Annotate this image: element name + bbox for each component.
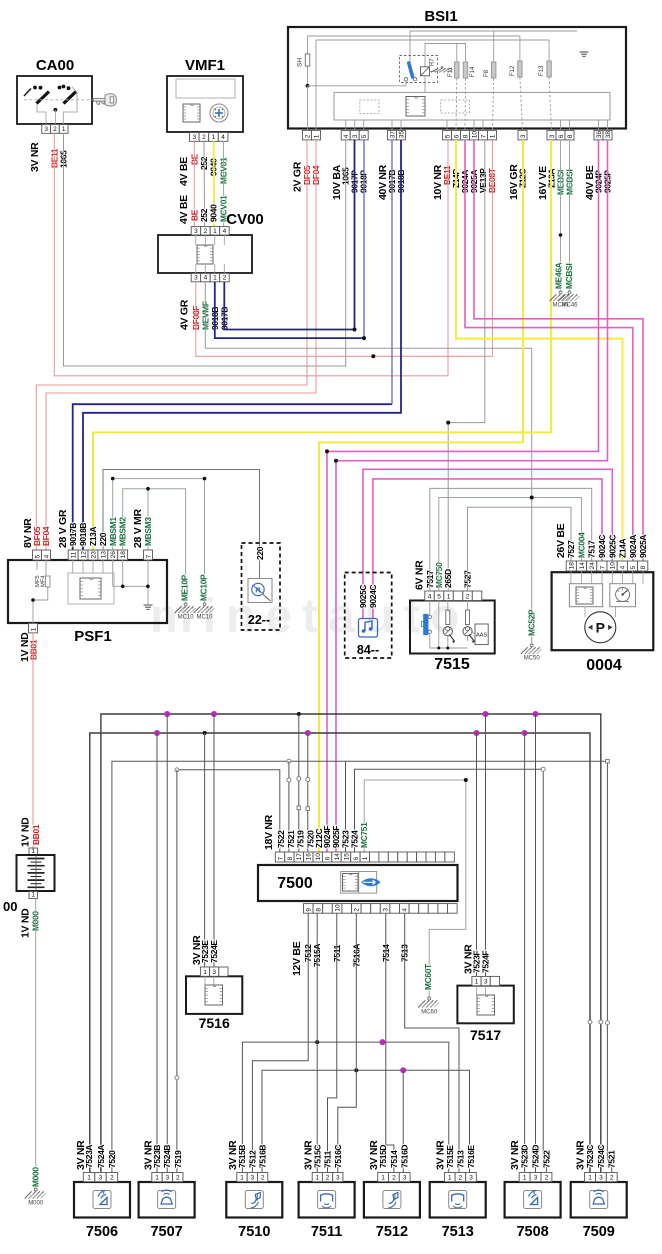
- svg-text:1: 1: [381, 1175, 385, 1182]
- svg-text:7: 7: [145, 554, 152, 558]
- key icon: [94, 94, 117, 106]
- svg-text:2: 2: [304, 134, 311, 138]
- svg-text:3: 3: [520, 134, 527, 138]
- wire 7511 stair: [328, 913, 337, 1172]
- svg-text:7514: 7514: [389, 1150, 399, 1168]
- fuse F13: [547, 61, 551, 77]
- svg-text:F14: F14: [470, 66, 476, 77]
- svg-text:9: 9: [306, 908, 313, 912]
- svg-text:7523C: 7523C: [585, 1145, 595, 1168]
- sensor unit 7510 box: [226, 1182, 282, 1218]
- wire BE: [193, 141, 195, 227]
- svg-text:MC10: MC10: [196, 615, 213, 621]
- svg-text:1: 1: [313, 134, 320, 138]
- svg-text:PSF1: PSF1: [74, 628, 112, 645]
- 22-- radio icon: [248, 579, 272, 603]
- svg-text:4: 4: [428, 593, 432, 600]
- wire 7519 to 7507: [176, 770, 178, 1172]
- wire MCV01: [222, 141, 224, 227]
- svg-text:3: 3: [534, 1175, 538, 1182]
- svg-text:14: 14: [579, 562, 586, 570]
- wire 1065 CA00-BSI1: [64, 133, 346, 366]
- VMF1 pin strip 3-2-1-4: [190, 133, 200, 142]
- relay R7 contacts: [404, 78, 407, 81]
- svg-text:ME10P: ME10P: [180, 574, 190, 601]
- BSI1 small ground near coil: [430, 70, 438, 72]
- svg-text:8: 8: [315, 908, 322, 912]
- wire MEVMF to MC52P ground: [205, 282, 531, 644]
- svg-text:1: 1: [588, 1175, 592, 1182]
- svg-text:14: 14: [334, 853, 341, 861]
- svg-text:F11: F11: [448, 66, 454, 77]
- svg-text:MC10P: MC10P: [199, 574, 209, 601]
- 7515 ground rail: [430, 647, 468, 649]
- svg-text:4: 4: [343, 134, 350, 138]
- 7515 lamp 1: [447, 601, 449, 611]
- svg-text:MC60: MC60: [421, 1010, 438, 1016]
- svg-text:F13: F13: [539, 65, 545, 76]
- dashed unit 22--: [242, 543, 281, 630]
- svg-text:3: 3: [44, 126, 48, 133]
- svg-text:7516E: 7516E: [466, 1145, 476, 1168]
- svg-text:3: 3: [212, 969, 216, 976]
- wire 9024A: [465, 140, 633, 561]
- svg-text:2: 2: [545, 1175, 549, 1182]
- CA00 pin strip 3-2-1: [42, 125, 51, 134]
- svg-text:2: 2: [610, 1175, 614, 1182]
- svg-text:7520: 7520: [107, 1150, 117, 1168]
- svg-text:7: 7: [599, 565, 606, 569]
- svg-text:3: 3: [99, 1175, 103, 1182]
- wire MBSM2 to ME10P: [123, 489, 186, 603]
- BSI1 pins 10V BA: [341, 130, 350, 140]
- wire 7523F: [476, 733, 478, 976]
- svg-text:7522: 7522: [276, 830, 286, 848]
- svg-text:265D: 265D: [443, 569, 453, 588]
- svg-text:7523D: 7523D: [520, 1145, 530, 1168]
- 0004 P telltale: [585, 612, 616, 643]
- instrument panel 0004 box: [552, 572, 654, 650]
- 7516 pin strip: [200, 967, 209, 976]
- svg-text:3: 3: [352, 134, 359, 138]
- svg-text:9025C: 9025C: [607, 535, 617, 558]
- svg-text:2: 2: [392, 1175, 396, 1182]
- 7513 pin strip: [445, 1173, 456, 1182]
- svg-text:220: 220: [98, 532, 108, 546]
- PSF1 pins 28V GR: [68, 550, 78, 560]
- BSI1 pins 40V NR: [388, 130, 397, 140]
- connector CV00 box: [158, 235, 252, 273]
- svg-text:8: 8: [640, 565, 647, 569]
- svg-text:2: 2: [202, 134, 206, 141]
- wire 7514: [386, 913, 394, 1172]
- battery top pin: [29, 848, 37, 855]
- svg-text:7516D: 7516D: [400, 1145, 410, 1168]
- wire 9024F-9024P: [327, 140, 599, 852]
- svg-text:1: 1: [30, 627, 37, 631]
- ground M000: [34, 1188, 37, 1191]
- svg-text:1: 1: [240, 1175, 244, 1182]
- svg-text:F8: F8: [484, 69, 490, 77]
- 7508 pin strip: [519, 1173, 530, 1182]
- 7517 stubs: [476, 986, 478, 995]
- unit 7517 box: [457, 986, 513, 1024]
- svg-text:7500: 7500: [277, 875, 313, 892]
- ground MC10 left: [184, 603, 187, 606]
- bus 7524 upper: [101, 714, 601, 1172]
- svg-text:7523B: 7523B: [152, 1145, 162, 1168]
- svg-text:7512: 7512: [247, 1150, 257, 1168]
- svg-text:3: 3: [484, 979, 488, 986]
- svg-text:F12: F12: [510, 65, 516, 76]
- svg-text:2: 2: [459, 1175, 463, 1182]
- ground MC50: [530, 644, 533, 647]
- svg-text:7524D: 7524D: [531, 1145, 541, 1168]
- wire BF05: [36, 140, 307, 550]
- 7516 stubs: [204, 976, 206, 985]
- battery 00 box: [17, 855, 55, 891]
- BSI1 box: [288, 27, 626, 129]
- svg-text:Z14A: Z14A: [618, 538, 628, 558]
- svg-text:MC10: MC10: [178, 615, 195, 621]
- svg-text:7523A: 7523A: [84, 1145, 94, 1168]
- svg-text:28 V GR: 28 V GR: [57, 509, 69, 548]
- PSF1 internal stubs: [72, 560, 74, 573]
- wire 7515 bus: [242, 1042, 448, 1172]
- svg-text:17: 17: [296, 853, 303, 861]
- 0004 pin strip: [566, 561, 576, 571]
- svg-text:252: 252: [199, 208, 209, 222]
- wire 220: [103, 470, 260, 579]
- wire 7516A vertical: [355, 913, 357, 1070]
- svg-text:BF04: BF04: [41, 526, 51, 546]
- 7511 pin strip: [312, 1173, 322, 1182]
- bus junction dots lower: [154, 730, 160, 736]
- wire 7513: [405, 913, 459, 1172]
- svg-text:MBSM1: MBSM1: [108, 517, 118, 546]
- 84-- buzzer icon: [359, 619, 378, 638]
- PSF1 internal wires left: [36, 560, 38, 570]
- wire 9017B PSF1-BSI1: [73, 404, 392, 550]
- svg-text:9024C: 9024C: [368, 585, 378, 608]
- svg-text:7517: 7517: [587, 540, 597, 558]
- svg-text:7515D: 7515D: [378, 1145, 388, 1168]
- svg-text:7524A: 7524A: [96, 1145, 106, 1168]
- PSF1 pins 8V NR: [33, 550, 42, 560]
- wire 7524B: [166, 714, 168, 1172]
- svg-text:7524E: 7524E: [209, 940, 219, 963]
- CA00 internal contacts: [24, 89, 31, 97]
- CV00 IC: [197, 245, 213, 264]
- svg-text:15: 15: [343, 853, 350, 861]
- svg-text:6: 6: [453, 134, 460, 138]
- dashed unit 84--: [345, 573, 392, 659]
- 7500 IC: [341, 872, 377, 894]
- svg-text:9018B: 9018B: [78, 523, 88, 546]
- ground MC46 right: [568, 291, 571, 294]
- wire MEBSI: [560, 140, 562, 291]
- svg-text:5: 5: [437, 593, 441, 600]
- wire Z13A: [93, 140, 551, 550]
- svg-text:7513: 7513: [442, 1224, 474, 1240]
- svg-text:24: 24: [589, 562, 596, 570]
- svg-text:7521: 7521: [286, 830, 296, 848]
- svg-text:9025C: 9025C: [358, 585, 368, 608]
- fuse F13 feed dashed: [549, 77, 551, 130]
- BSI1 strip IC: [406, 97, 425, 117]
- BSI1 ground right: [580, 51, 589, 53]
- svg-text:13: 13: [100, 551, 107, 559]
- svg-text:2: 2: [53, 126, 57, 133]
- unit 7515 box: [410, 601, 495, 654]
- BSI1 top ground net: [576, 31, 578, 48]
- relay R7 coil: [421, 67, 430, 76]
- svg-text:6V NR: 6V NR: [413, 560, 425, 590]
- wire 252: [203, 141, 206, 227]
- svg-text:1: 1: [31, 848, 35, 855]
- BSI1 pins 16V GR: [518, 130, 527, 140]
- svg-text:7515: 7515: [434, 656, 470, 673]
- 0004 gauge: [610, 584, 636, 607]
- svg-text:1: 1: [523, 1175, 527, 1182]
- fuse F12 feed dashed: [520, 77, 523, 130]
- fuse F8 feed dashed: [493, 78, 494, 130]
- svg-text:1: 1: [31, 891, 35, 898]
- svg-text:5: 5: [34, 554, 41, 558]
- fuse F14 feed dashed: [464, 78, 467, 130]
- svg-text:VMF1: VMF1: [185, 57, 225, 74]
- svg-text:7524C: 7524C: [596, 1145, 606, 1168]
- battery bottom pin: [29, 892, 37, 899]
- svg-text:MC50: MC50: [524, 656, 541, 662]
- 7515 pin5 wire: [438, 601, 440, 649]
- svg-text:MC60T: MC60T: [423, 963, 433, 990]
- 7517 pin strip: [472, 976, 481, 985]
- wire 9024C: [373, 479, 602, 619]
- VMF1 inner panel: [176, 79, 235, 98]
- svg-text:3: 3: [194, 275, 198, 282]
- svg-text:10: 10: [315, 853, 322, 861]
- 7515 lamp 2: [467, 601, 469, 611]
- wire MCBSI: [569, 140, 571, 291]
- svg-text:7522: 7522: [541, 1150, 551, 1168]
- svg-text:7516B: 7516B: [258, 1145, 268, 1168]
- 7500 bottom pin strip: [304, 904, 314, 914]
- svg-text:7515E: 7515E: [445, 1145, 455, 1168]
- svg-text:MC751: MC751: [359, 822, 369, 848]
- svg-text:1: 1: [212, 134, 216, 141]
- svg-text:7517: 7517: [470, 1027, 501, 1043]
- svg-text:M000: M000: [31, 1167, 41, 1187]
- 7515 switch: [429, 601, 431, 617]
- unit 7500 box: [258, 865, 458, 901]
- svg-text:3: 3: [549, 134, 556, 138]
- svg-text:7510: 7510: [238, 1224, 270, 1240]
- svg-text:3: 3: [469, 1175, 473, 1182]
- BSI1 strip dashed sub-box A: [360, 100, 379, 114]
- PSF1 inner IC panel: [68, 573, 114, 604]
- wire 7516C stair: [338, 1070, 357, 1172]
- svg-text:AAS: AAS: [476, 633, 487, 639]
- svg-text:4V BE: 4V BE: [178, 195, 190, 224]
- svg-text:10: 10: [610, 562, 617, 570]
- svg-text:6: 6: [558, 134, 565, 138]
- svg-text:7509: 7509: [583, 1224, 615, 1240]
- svg-text:7507: 7507: [150, 1224, 182, 1240]
- svg-text:9024C: 9024C: [597, 535, 607, 558]
- wire 9018B PSF1-BSI1: [83, 140, 401, 550]
- svg-text:4V BE: 4V BE: [178, 157, 190, 186]
- wire 7515A vertical: [316, 913, 318, 1172]
- svg-text:5: 5: [630, 565, 637, 569]
- svg-text:28 V MR: 28 V MR: [132, 509, 144, 548]
- svg-text:1: 1: [448, 1175, 452, 1182]
- svg-text:3: 3: [336, 1175, 340, 1182]
- wire 7516 bus: [262, 1070, 470, 1172]
- svg-text:9025A: 9025A: [638, 535, 648, 558]
- sensor unit 7508 box: [505, 1182, 561, 1218]
- svg-text:R7: R7: [430, 58, 436, 66]
- sensor unit 7509 box: [571, 1182, 627, 1218]
- svg-text:35: 35: [398, 131, 405, 139]
- wire Z12C: [319, 140, 523, 852]
- svg-text:7: 7: [277, 856, 284, 860]
- svg-text:1: 1: [203, 969, 207, 976]
- wire 7519 7500: [298, 714, 300, 852]
- svg-text:2: 2: [223, 275, 227, 282]
- svg-text:4: 4: [221, 134, 225, 141]
- PSF1 bottom pin 1: [29, 623, 38, 633]
- relay R7 blue lever: [409, 63, 413, 77]
- svg-text:7506: 7506: [86, 1224, 118, 1240]
- svg-text:8: 8: [567, 134, 574, 138]
- BSI1 pins 16V VE: [547, 130, 556, 140]
- svg-text:1: 1: [87, 1175, 91, 1182]
- BSI1 strip-to-pin stubs: [345, 120, 347, 130]
- 7515 AAS box: [475, 624, 488, 645]
- wire M000: [35, 899, 37, 1189]
- svg-text:MBSM2: MBSM2: [118, 517, 128, 546]
- svg-text:7516C: 7516C: [333, 1145, 343, 1168]
- CV00 stubs: [195, 235, 197, 245]
- svg-text:8: 8: [287, 856, 294, 860]
- BSI1 connector strip: [334, 92, 610, 120]
- sensor unit 7506 box: [74, 1182, 130, 1218]
- svg-text:1V ND: 1V ND: [20, 817, 32, 847]
- svg-text:18: 18: [569, 562, 576, 570]
- wire 9025C: [363, 469, 612, 619]
- BSI1 pins 40V BE: [594, 130, 603, 140]
- svg-text:4V GR: 4V GR: [178, 299, 190, 330]
- wire 7524F: [485, 714, 487, 976]
- wire BF08F: [196, 140, 493, 356]
- svg-text:7519: 7519: [173, 1150, 183, 1168]
- svg-text:MC46: MC46: [561, 303, 578, 309]
- svg-text:SH: SH: [297, 58, 304, 67]
- svg-text:36: 36: [596, 131, 603, 139]
- bus junction dots upper: [164, 711, 170, 717]
- svg-text:7524F: 7524F: [481, 951, 491, 973]
- svg-text:3: 3: [192, 134, 196, 141]
- svg-text:5: 5: [361, 134, 368, 138]
- svg-text:1: 1: [62, 126, 66, 133]
- svg-text:1: 1: [315, 1175, 319, 1182]
- svg-text:2: 2: [326, 1175, 330, 1182]
- sensor unit 7512 box: [364, 1182, 420, 1218]
- BSI1 pins 10V NR: [443, 130, 452, 140]
- fuse F11 feed dashed: [455, 78, 458, 130]
- svg-text:84--: 84--: [357, 643, 379, 657]
- svg-text:7511: 7511: [311, 1224, 342, 1240]
- svg-text:1: 1: [489, 134, 496, 138]
- svg-text:37: 37: [389, 131, 396, 139]
- svg-text:12: 12: [81, 551, 88, 559]
- svg-text:8: 8: [462, 134, 469, 138]
- svg-text:12V BE: 12V BE: [291, 941, 303, 976]
- sensor unit 7513 box: [430, 1182, 486, 1218]
- svg-text:MC004: MC004: [577, 532, 587, 558]
- svg-text:MC52P: MC52P: [527, 609, 537, 636]
- wire 7523E: [204, 733, 206, 967]
- PSF1 box: [8, 560, 167, 623]
- wire 9018B CV00-BSI1: [215, 282, 364, 338]
- wire 7527: [468, 507, 572, 591]
- svg-text:7524B: 7524B: [162, 1145, 172, 1168]
- 0004 stubs: [570, 571, 572, 584]
- 7500 top pin strip: [275, 852, 284, 862]
- svg-text:7519: 7519: [296, 830, 306, 848]
- wire 7524E: [213, 714, 215, 967]
- PSF1 pins 28V MR: [144, 550, 153, 560]
- fuse F14: [463, 62, 467, 78]
- wire 7524 link to 7508: [355, 769, 547, 1172]
- wire BF04: [46, 140, 316, 550]
- svg-text:7513: 7513: [455, 1150, 465, 1168]
- svg-text:22--: 22--: [248, 613, 270, 627]
- svg-text:10: 10: [335, 904, 342, 912]
- fuse SH: [307, 36, 309, 86]
- svg-text:4: 4: [223, 228, 227, 235]
- svg-text:MBSM3: MBSM3: [143, 517, 153, 546]
- svg-text:3: 3: [599, 1175, 603, 1182]
- wire 7523D: [524, 733, 526, 1172]
- svg-text:P: P: [596, 619, 605, 635]
- svg-text:9017B: 9017B: [68, 523, 78, 546]
- svg-text:2: 2: [354, 908, 361, 912]
- svg-text:7: 7: [480, 134, 487, 138]
- battery cells: [28, 858, 45, 860]
- VMF1 round connector: [210, 104, 228, 122]
- ground MC46 left: [559, 291, 562, 294]
- svg-text:CA00: CA00: [36, 57, 74, 74]
- svg-text:1: 1: [213, 275, 217, 282]
- 7506 pin strip: [83, 1173, 94, 1182]
- svg-text:7515B: 7515B: [237, 1145, 247, 1168]
- svg-text:9024A: 9024A: [628, 535, 638, 558]
- wire MC751 to ground MC60: [364, 780, 466, 997]
- svg-text:2: 2: [110, 1175, 114, 1182]
- wire 9017B CV00-BSI1: [224, 140, 354, 330]
- svg-text:5: 5: [444, 134, 451, 138]
- fuse F12: [518, 61, 522, 77]
- svg-text:23: 23: [90, 551, 97, 559]
- svg-text:00: 00: [3, 899, 17, 914]
- BSI1 internal bus y36: [308, 36, 520, 61]
- svg-text:2: 2: [176, 1175, 180, 1182]
- 7515 pin strip: [425, 591, 435, 601]
- svg-text:Z13A: Z13A: [88, 526, 98, 546]
- svg-text:BSI1: BSI1: [424, 8, 457, 25]
